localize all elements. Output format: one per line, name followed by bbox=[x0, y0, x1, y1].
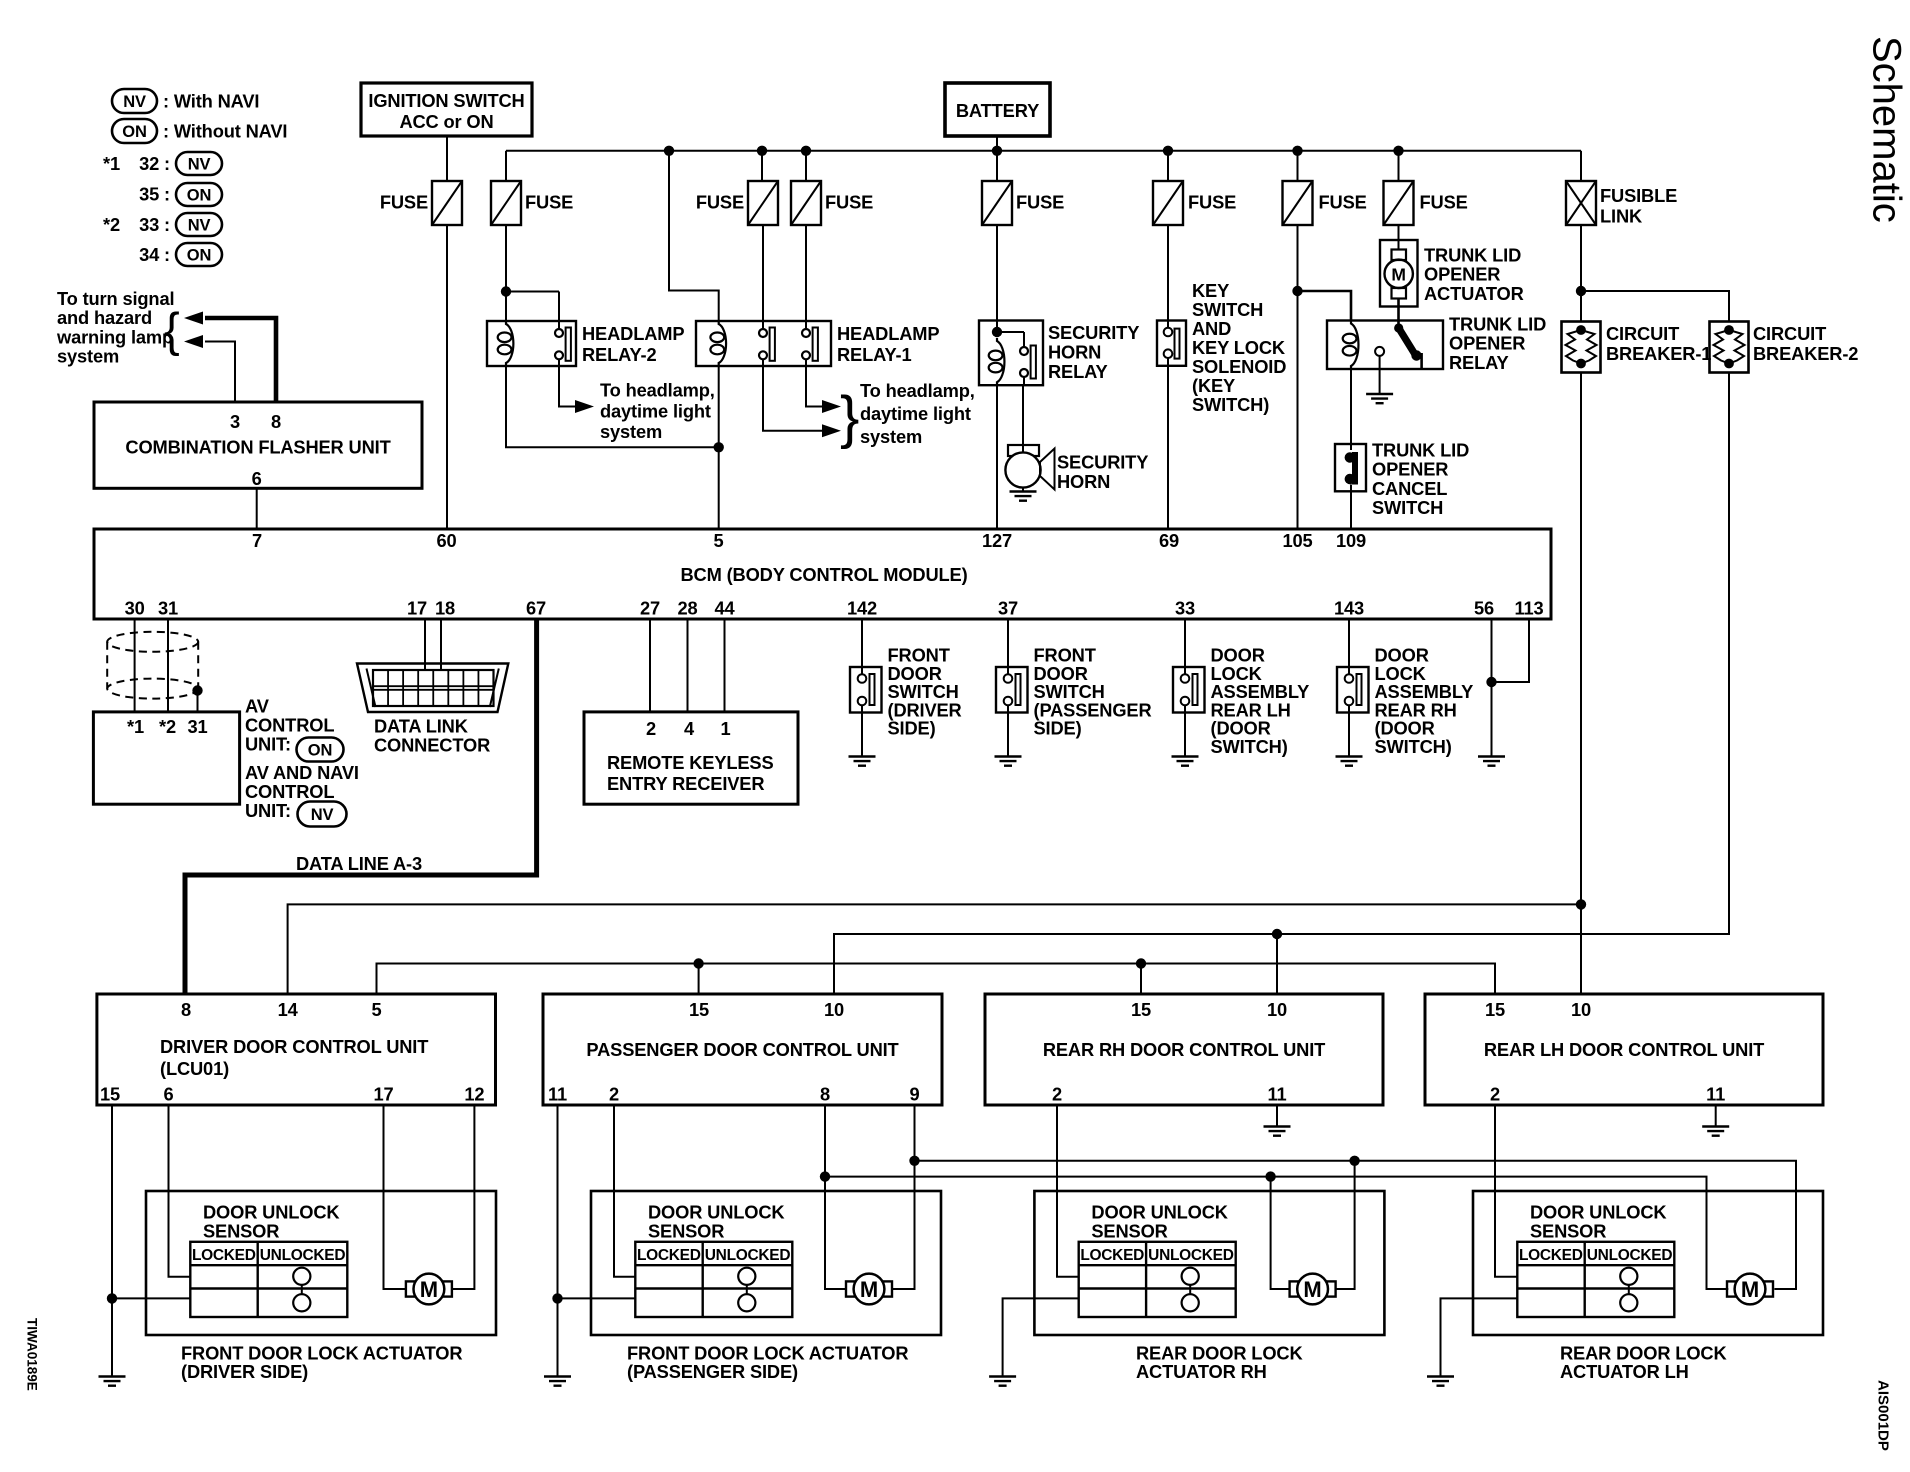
doc code AIS001DP (rotated) bbox=[1875, 1380, 1892, 1451]
wire: fuse F3 to relay-1 contact a bbox=[762, 225, 764, 330]
svg-text:DATA LINK: DATA LINK bbox=[374, 716, 469, 737]
box: rear RH door lock actuator bbox=[1034, 1191, 1384, 1335]
legend NV oval: With NAVI bbox=[112, 89, 259, 113]
box: REAR RH DOOR CONTROL UNIT bbox=[985, 994, 1383, 1105]
node: shield drain junction bbox=[192, 685, 202, 695]
svg-text:M: M bbox=[1303, 1277, 1321, 1302]
box: front passenger door lock actuator bbox=[591, 1191, 941, 1335]
switch: passenger door switch bbox=[996, 667, 1028, 713]
fuse F7 bbox=[1283, 181, 1367, 225]
wire: driver pin 12 to motor bbox=[452, 1105, 475, 1289]
svg-text:127: 127 bbox=[982, 530, 1012, 551]
wire: BCM pin 27 to receiver pin 2 bbox=[649, 619, 651, 712]
svg-text:FUSE: FUSE bbox=[1016, 192, 1064, 213]
shield cylinder (dashed) bbox=[107, 632, 198, 699]
wire: passenger pin 9 rail to rear motors (right tabs) bbox=[915, 1105, 1797, 1289]
svg-text:8: 8 bbox=[820, 1084, 830, 1105]
wire: CB-2 riser and rail to passenger pin 10 bbox=[834, 373, 1729, 995]
svg-text:*2: *2 bbox=[103, 214, 120, 235]
wire: key switch to BCM pin 69 bbox=[1167, 358, 1169, 529]
node: rail 1176 / passenger pin 8 bbox=[820, 1171, 830, 1181]
svg-text:OPENER: OPENER bbox=[1424, 264, 1500, 285]
svg-text:44: 44 bbox=[714, 598, 735, 619]
svg-text:Schematic: Schematic bbox=[1865, 36, 1909, 223]
wire: passenger pin 15 drop bbox=[698, 964, 700, 995]
box: front driver door lock actuator bbox=[146, 1191, 496, 1335]
svg-text:AND: AND bbox=[1192, 318, 1231, 339]
wire: BCM pin 56 to ground bbox=[1491, 619, 1493, 757]
svg-text:143: 143 bbox=[1334, 598, 1364, 619]
box: rear LH door lock actuator bbox=[1473, 1191, 1823, 1335]
ground: rear RH unit bbox=[1264, 1127, 1291, 1136]
node: rail 904 / CB-1 riser junction bbox=[1576, 899, 1586, 909]
node: bus junction x806 bbox=[801, 146, 811, 156]
doc code TIWA0189E (rotated) bbox=[25, 1318, 40, 1391]
svg-text:COMBINATION FLASHER UNIT: COMBINATION FLASHER UNIT bbox=[125, 437, 390, 458]
circuit breaker-2 bbox=[1710, 322, 1749, 373]
wire: passenger door switch to ground bbox=[1007, 705, 1009, 757]
svg-text:REAR RH DOOR CONTROL UNIT: REAR RH DOOR CONTROL UNIT bbox=[1043, 1039, 1325, 1060]
wire: rear RH pin 15 drop bbox=[1140, 964, 1142, 995]
svg-text:CIRCUIT: CIRCUIT bbox=[1753, 323, 1826, 344]
wire: rear RH sensor common to ground bbox=[1003, 1298, 1079, 1376]
fusible link bbox=[1566, 181, 1677, 227]
label: rear RH actuator name bbox=[1136, 1343, 1303, 1383]
switch: rear LH door switch bbox=[1173, 667, 1205, 713]
svg-text:DRIVER DOOR CONTROL UNIT: DRIVER DOOR CONTROL UNIT bbox=[160, 1036, 428, 1057]
node: passenger pin 11 junction bbox=[552, 1293, 562, 1303]
svg-text:DOOR UNLOCK: DOOR UNLOCK bbox=[1091, 1202, 1228, 1223]
svg-text:109: 109 bbox=[1336, 530, 1366, 551]
svg-text:OPENER: OPENER bbox=[1372, 459, 1448, 480]
svg-text:10: 10 bbox=[1571, 999, 1591, 1020]
svg-text:DOOR UNLOCK: DOOR UNLOCK bbox=[648, 1202, 785, 1223]
svg-text:warning lamp: warning lamp bbox=[56, 326, 173, 347]
svg-text:CIRCUIT: CIRCUIT bbox=[1606, 323, 1679, 344]
relay: SECURITY HORN RELAY bbox=[979, 321, 1043, 386]
wire: rear RH motor left riser bbox=[1271, 1177, 1290, 1289]
relay: HEADLAMP RELAY-1 bbox=[696, 321, 831, 366]
svg-text:HEADLAMP: HEADLAMP bbox=[837, 323, 939, 344]
wire: cancel switch to BCM pin 109 bbox=[1350, 485, 1352, 530]
brace and label: To headlamp daytime light system (relay-1) bbox=[840, 380, 975, 450]
svg-text:*1: *1 bbox=[103, 153, 120, 174]
svg-text:SENSOR: SENSOR bbox=[203, 1221, 279, 1242]
wire: CB-1 riser to rear LH pin 10 bbox=[1580, 373, 1582, 995]
svg-text:NV: NV bbox=[188, 217, 211, 235]
wire: trunk actuator to trunk relay switch bbox=[1397, 299, 1400, 329]
svg-text:SENSOR: SENSOR bbox=[648, 1221, 724, 1242]
switch: KEY SWITCH AND KEY LOCK SOLENOID bbox=[1157, 321, 1186, 366]
svg-text:system: system bbox=[860, 426, 922, 447]
svg-text:7: 7 bbox=[252, 530, 262, 551]
svg-text:ON: ON bbox=[187, 187, 211, 205]
svg-text:12: 12 bbox=[464, 1084, 484, 1105]
node: bus junction x1297.5 bbox=[1292, 146, 1302, 156]
label: driver door switch bbox=[888, 645, 962, 739]
svg-text:8: 8 bbox=[181, 999, 191, 1020]
svg-text:DOOR UNLOCK: DOOR UNLOCK bbox=[1530, 1202, 1667, 1223]
circuit breaker-1 bbox=[1562, 322, 1601, 373]
node: rail 963 / rear RH pin 15 junction bbox=[1136, 958, 1146, 968]
svg-text:SENSOR: SENSOR bbox=[1091, 1221, 1167, 1242]
node: pin 56/113 junction bbox=[1486, 677, 1496, 687]
wire: rear LH pin 11 to ground bbox=[1715, 1105, 1717, 1127]
svg-text:18: 18 bbox=[435, 598, 455, 619]
svg-text:6: 6 bbox=[163, 1084, 173, 1105]
svg-text:UNIT:: UNIT: bbox=[245, 800, 291, 821]
wire: bus to fuse F6 bbox=[1167, 151, 1169, 181]
fuse F6 bbox=[1153, 181, 1236, 225]
svg-text:NV: NV bbox=[311, 806, 334, 824]
svg-text:CANCEL: CANCEL bbox=[1372, 478, 1447, 499]
svg-text:UNLOCKED: UNLOCKED bbox=[1148, 1247, 1234, 1264]
wire: relay-1 contact a to arrow lower bbox=[763, 359, 841, 437]
wire: BCM pin 142 to driver door switch bbox=[861, 619, 863, 675]
svg-text:CONNECTOR: CONNECTOR bbox=[374, 735, 490, 756]
svg-text:*2: *2 bbox=[159, 716, 176, 737]
motor: TRUNK LID OPENER ACTUATOR bbox=[1380, 240, 1418, 307]
node: bus junction x1168 bbox=[1163, 146, 1173, 156]
svg-text:ON: ON bbox=[122, 123, 146, 141]
svg-text:: Without NAVI: : Without NAVI bbox=[163, 121, 287, 142]
box: DRIVER DOOR CONTROL UNIT (LCU01) bbox=[97, 994, 496, 1105]
label: front driver actuator name bbox=[181, 1343, 462, 1383]
box: COMBINATION FLASHER UNIT bbox=[94, 402, 422, 489]
legend *2 33 : NV bbox=[103, 213, 222, 236]
ground: driver door switch bbox=[849, 757, 876, 766]
svg-text:ACTUATOR LH: ACTUATOR LH bbox=[1560, 1361, 1689, 1382]
svg-text:To turn signal: To turn signal bbox=[57, 288, 174, 309]
node: rail 934 / rear RH pin 10 junction bbox=[1272, 929, 1282, 939]
svg-text:SECURITY: SECURITY bbox=[1048, 322, 1139, 343]
ground: rear RH door switch bbox=[1336, 757, 1363, 766]
svg-text:SOLENOID: SOLENOID bbox=[1192, 356, 1286, 377]
fuse F4 bbox=[791, 181, 873, 225]
svg-text:RELAY: RELAY bbox=[1048, 361, 1108, 382]
svg-text:69: 69 bbox=[1159, 530, 1179, 551]
label: TRUNK LID OPENER CANCEL SWITCH bbox=[1372, 440, 1469, 519]
svg-text:OPENER: OPENER bbox=[1449, 333, 1525, 354]
label: To headlamp daytime light system (relay-2) bbox=[600, 380, 715, 443]
wire: passenger pin 2 to sensor bbox=[614, 1105, 636, 1277]
wire: flasher pin 6 to BCM pin 7 bbox=[256, 488, 258, 529]
svg-text:KEY: KEY bbox=[1192, 280, 1229, 301]
svg-text:SWITCH): SWITCH) bbox=[1211, 736, 1288, 757]
legend *1 32 : NV bbox=[103, 152, 222, 175]
svg-text:DATA LINE A-3: DATA LINE A-3 bbox=[296, 853, 422, 874]
switch: TRUNK LID OPENER CANCEL SWITCH bbox=[1335, 444, 1366, 491]
svg-text:10: 10 bbox=[824, 999, 844, 1020]
svg-text:6: 6 bbox=[252, 468, 262, 489]
svg-text:11: 11 bbox=[1706, 1084, 1725, 1105]
svg-text:31: 31 bbox=[187, 716, 207, 737]
wire: bus to fuse F2 bbox=[505, 151, 507, 181]
sensor table (front driver) bbox=[190, 1242, 347, 1317]
svg-text:142: 142 bbox=[847, 598, 877, 619]
wire: BCM pin 37 to passenger door switch bbox=[1007, 619, 1009, 675]
fuse F2 bbox=[491, 181, 573, 225]
svg-text:35 :: 35 : bbox=[139, 184, 170, 205]
svg-text:4: 4 bbox=[684, 718, 695, 739]
svg-text:TRUNK LID: TRUNK LID bbox=[1424, 245, 1521, 266]
svg-text:system: system bbox=[600, 421, 662, 442]
svg-text:LINK: LINK bbox=[1600, 206, 1643, 227]
wire: rear RH motor right riser bbox=[1336, 1161, 1355, 1289]
svg-text:DOOR UNLOCK: DOOR UNLOCK bbox=[203, 1202, 340, 1223]
node: rail 1160 / passenger pin 9 bbox=[909, 1156, 919, 1166]
svg-text:LOCKED: LOCKED bbox=[192, 1247, 256, 1264]
label: CIRCUIT BREAKER-2 bbox=[1753, 323, 1858, 364]
node: bus junction x1398.5 bbox=[1393, 146, 1403, 156]
BCM top pin labels bbox=[252, 530, 1366, 551]
svg-text:ENTRY RECEIVER: ENTRY RECEIVER bbox=[607, 773, 764, 794]
wire: fuse F1 to BCM pin 60 bbox=[446, 225, 448, 529]
wire: bus to fuse F8 bbox=[1398, 151, 1400, 181]
svg-text:LOCKED: LOCKED bbox=[1080, 1247, 1144, 1264]
wire: fuse F7 to BCM pin 105 bbox=[1297, 225, 1299, 529]
wire: bus to headlamp relay-1 coil bbox=[669, 151, 719, 321]
wire: power rail from driver pin 14 to circuit breaker-1 net bbox=[288, 904, 1581, 994]
svg-text:27: 27 bbox=[640, 598, 660, 619]
svg-text:17: 17 bbox=[407, 598, 427, 619]
motor (front passenger) bbox=[846, 1274, 892, 1305]
svg-text:*1: *1 bbox=[127, 716, 144, 737]
wire: driver door switch to ground bbox=[861, 705, 863, 757]
svg-text:2: 2 bbox=[1490, 1084, 1500, 1105]
label: rear RH door switch bbox=[1375, 645, 1474, 758]
wire: flasher pin 3 to hazard arrow bbox=[184, 335, 235, 402]
ground: rear RH actuator bbox=[989, 1377, 1016, 1386]
switch: driver door switch bbox=[850, 667, 882, 713]
node: driver pin 15 junction bbox=[107, 1293, 117, 1303]
svg-text:M: M bbox=[860, 1277, 878, 1302]
sensor table (rear LH) bbox=[1517, 1242, 1674, 1317]
svg-text:HORN: HORN bbox=[1057, 471, 1110, 492]
svg-text:11: 11 bbox=[548, 1084, 567, 1105]
svg-text:15: 15 bbox=[689, 999, 709, 1020]
svg-text:FUSE: FUSE bbox=[1188, 192, 1236, 213]
label: AV CONTROL UNIT: ON / AV AND NAVI CONTROL UNIT: NV bbox=[245, 696, 359, 827]
node: breaker feed junction bbox=[1576, 286, 1586, 296]
svg-text:15: 15 bbox=[1131, 999, 1151, 1020]
fuse F1 bbox=[380, 181, 462, 225]
label: DATA LINE A-3 bbox=[296, 853, 422, 874]
svg-text:AV: AV bbox=[245, 696, 270, 717]
svg-text:8: 8 bbox=[271, 411, 281, 432]
svg-text:67: 67 bbox=[526, 598, 546, 619]
svg-text:5: 5 bbox=[713, 530, 723, 551]
svg-text:}: } bbox=[840, 385, 859, 450]
wire: BCM pin 44 to receiver pin 1 bbox=[724, 619, 726, 712]
svg-text:60: 60 bbox=[436, 530, 456, 551]
svg-text:28: 28 bbox=[677, 598, 697, 619]
svg-text:15: 15 bbox=[1485, 999, 1505, 1020]
svg-text:REAR LH DOOR CONTROL UNIT: REAR LH DOOR CONTROL UNIT bbox=[1484, 1039, 1764, 1060]
svg-text:BREAKER-1: BREAKER-1 bbox=[1606, 343, 1711, 364]
wire: bus to fuse F5 bbox=[996, 151, 998, 181]
ground: rear LH actuator bbox=[1427, 1377, 1454, 1386]
svg-text:14: 14 bbox=[278, 999, 299, 1020]
svg-text:REMOTE KEYLESS: REMOTE KEYLESS bbox=[607, 752, 774, 773]
wire: flasher pin 8 to turn signal arrow (thick) bbox=[184, 312, 276, 403]
wire: BCM pin 143 to rear RH door switch bbox=[1348, 619, 1350, 675]
svg-text:LOCKED: LOCKED bbox=[637, 1247, 701, 1264]
svg-text:UNLOCKED: UNLOCKED bbox=[1587, 1247, 1673, 1264]
brace: flasher outputs bbox=[164, 303, 180, 356]
svg-text:To headlamp,: To headlamp, bbox=[600, 380, 715, 401]
legend 35 : ON bbox=[139, 183, 222, 206]
BCM (BODY CONTROL MODULE) box bbox=[94, 529, 1551, 619]
wire: DATA LINE A-3 (BCM pin 67 to driver unit pin 8, thick) bbox=[185, 619, 537, 994]
label: passenger door switch bbox=[1034, 645, 1152, 739]
svg-text:M: M bbox=[1741, 1277, 1759, 1302]
BCM bottom pin labels bbox=[125, 598, 1544, 619]
node: rail 963 / passenger pin 15 junction bbox=[693, 958, 703, 968]
wire: ignition switch to fuse F1 bbox=[446, 136, 448, 181]
legend 34 : ON bbox=[139, 243, 222, 266]
svg-text:31: 31 bbox=[158, 598, 178, 619]
svg-text:FUSE: FUSE bbox=[380, 192, 428, 213]
motor (front driver) bbox=[406, 1274, 452, 1305]
label: DOOR UNLOCK SENSOR (rear LH) bbox=[1530, 1202, 1667, 1242]
svg-text:system: system bbox=[57, 346, 119, 367]
svg-text:PASSENGER DOOR CONTROL UNIT: PASSENGER DOOR CONTROL UNIT bbox=[586, 1039, 898, 1060]
sensor table (front passenger) bbox=[635, 1242, 792, 1317]
svg-text:SIDE): SIDE) bbox=[888, 718, 936, 739]
box: REAR LH DOOR CONTROL UNIT bbox=[1425, 994, 1823, 1105]
label: rear LH door switch bbox=[1211, 645, 1310, 758]
svg-text:AIS001DP: AIS001DP bbox=[1875, 1380, 1892, 1451]
svg-text:SENSOR: SENSOR bbox=[1530, 1221, 1606, 1242]
svg-text:FUSIBLE: FUSIBLE bbox=[1600, 185, 1677, 206]
svg-text:2: 2 bbox=[1052, 1084, 1062, 1105]
svg-text:: With NAVI: : With NAVI bbox=[163, 91, 259, 112]
svg-text:TRUNK LID: TRUNK LID bbox=[1449, 314, 1546, 335]
label: DOOR UNLOCK SENSOR (front passenger) bbox=[648, 1202, 785, 1242]
relay: HEADLAMP RELAY-2 bbox=[487, 321, 576, 366]
svg-text:34 :: 34 : bbox=[139, 244, 170, 265]
svg-text:HEADLAMP: HEADLAMP bbox=[582, 323, 684, 344]
title Schematic (rotated) bbox=[1865, 36, 1909, 223]
svg-text:M: M bbox=[420, 1277, 438, 1302]
wire: battery to bus bbox=[996, 136, 998, 151]
svg-text:1: 1 bbox=[720, 718, 730, 739]
svg-text:SWITCH: SWITCH bbox=[1192, 299, 1263, 320]
svg-text:32 :: 32 : bbox=[139, 153, 170, 174]
svg-text:SWITCH: SWITCH bbox=[1372, 497, 1443, 518]
wire: fuse F2 to headlamp relay-2 bbox=[506, 225, 559, 330]
svg-text:ACTUATOR: ACTUATOR bbox=[1424, 283, 1524, 304]
wire: junction to trunk relay coil bbox=[1298, 291, 1352, 321]
wire: relay-1 contact b to arrow upper bbox=[806, 359, 841, 413]
node A: BCM pin 5 net junction bbox=[714, 442, 724, 452]
wire: rear RH pin 11 to ground bbox=[1276, 1105, 1278, 1127]
wire: rear RH door switch to ground bbox=[1348, 705, 1350, 757]
label: HEADLAMP RELAY-2 bbox=[582, 323, 684, 365]
svg-text:CONTROL: CONTROL bbox=[245, 715, 334, 736]
wire: passenger pin 8 to its motor bbox=[825, 1177, 846, 1289]
wire: rear LH sensor common to ground bbox=[1441, 1298, 1518, 1376]
svg-text:(DRIVER SIDE): (DRIVER SIDE) bbox=[181, 1361, 308, 1382]
svg-text:(KEY: (KEY bbox=[1192, 375, 1235, 396]
box: AV CONTROL UNIT bbox=[93, 712, 239, 804]
motor (rear RH) bbox=[1290, 1274, 1336, 1305]
wire: fuse F5 to security horn relay bbox=[996, 225, 998, 332]
sensor table (rear RH) bbox=[1079, 1242, 1236, 1317]
wire: fuse F4 to relay-1 contact b bbox=[805, 225, 807, 330]
label: CIRCUIT BREAKER-1 bbox=[1606, 323, 1711, 364]
wire: BCM pin 18 to data link connector bbox=[440, 619, 442, 670]
legend ON oval: Without NAVI bbox=[112, 119, 287, 143]
node: rail 1176 / rear RH motor riser bbox=[1265, 1171, 1275, 1181]
ground: BCM pin 56 bbox=[1478, 757, 1505, 766]
svg-text:RELAY-2: RELAY-2 bbox=[582, 344, 656, 365]
svg-text:ACC or ON: ACC or ON bbox=[399, 111, 493, 132]
svg-text:3: 3 bbox=[230, 411, 240, 432]
switch: rear RH door switch bbox=[1337, 667, 1369, 713]
svg-text:FUSE: FUSE bbox=[1319, 192, 1367, 213]
svg-text:daytime light: daytime light bbox=[600, 400, 711, 421]
fuse F5 bbox=[982, 181, 1064, 225]
ignition switch box: IGNITION SWITCH ACC or ON bbox=[361, 83, 532, 136]
svg-text:UNLOCKED: UNLOCKED bbox=[705, 1247, 791, 1264]
wire: passenger pin 8 rail to rear motors (left tabs) bbox=[825, 1105, 1728, 1289]
svg-text:56: 56 bbox=[1474, 598, 1494, 619]
label: SECURITY HORN bbox=[1057, 452, 1148, 493]
wire: bus to fuse F4 bbox=[805, 151, 807, 181]
svg-text:daytime light: daytime light bbox=[860, 403, 971, 424]
wire: driver pin 17 to motor bbox=[384, 1105, 406, 1289]
label: TRUNK LID OPENER RELAY bbox=[1449, 314, 1546, 373]
node: bus junction x669 bbox=[664, 146, 674, 156]
wire: bus to fuse F7 bbox=[1297, 151, 1299, 181]
box: REMOTE KEYLESS ENTRY RECEIVER bbox=[584, 712, 798, 804]
svg-text:RELAY: RELAY bbox=[1449, 352, 1509, 373]
svg-text:SIDE): SIDE) bbox=[1034, 718, 1082, 739]
svg-text:ON: ON bbox=[308, 742, 332, 760]
svg-text:FUSE: FUSE bbox=[1420, 192, 1468, 213]
svg-text:LOCKED: LOCKED bbox=[1519, 1247, 1583, 1264]
ground: passenger actuator bbox=[544, 1377, 571, 1386]
fuse F8 bbox=[1384, 181, 1468, 225]
wire: relay-2 coil to node A (BCM pin 5 net) bbox=[506, 366, 716, 447]
label: SECURITY HORN RELAY bbox=[1048, 322, 1139, 382]
motor (rear LH) bbox=[1727, 1274, 1773, 1305]
wire: passenger pin 11 to sensor and ground bbox=[558, 1105, 637, 1377]
svg-text:SWITCH): SWITCH) bbox=[1375, 736, 1452, 757]
wire: BCM pin 113 jog to pin 56 net bbox=[1492, 619, 1530, 682]
wire: relay-1 coil to node A bbox=[718, 366, 720, 447]
node: rail 1160 / rear RH motor riser bbox=[1349, 1156, 1359, 1166]
wire: passenger pin 9 to its motor bbox=[892, 1161, 915, 1289]
svg-text:2: 2 bbox=[609, 1084, 619, 1105]
svg-text:TIWA0189E: TIWA0189E bbox=[25, 1318, 40, 1391]
svg-text:5: 5 bbox=[371, 999, 381, 1020]
connector: DATA LINK CONNECTOR bbox=[357, 664, 508, 713]
wire: bus to fusible link bbox=[1580, 151, 1582, 181]
svg-text:33: 33 bbox=[1175, 598, 1195, 619]
relay: TRUNK LID OPENER RELAY bbox=[1327, 321, 1443, 370]
svg-text:HORN: HORN bbox=[1048, 342, 1101, 363]
ground: passenger door switch bbox=[995, 757, 1022, 766]
ground: security horn bbox=[1010, 492, 1037, 501]
svg-text:SWITCH): SWITCH) bbox=[1192, 394, 1269, 415]
wire: trunk relay coil to cancel switch bbox=[1350, 369, 1352, 450]
svg-text:RELAY-1: RELAY-1 bbox=[837, 344, 911, 365]
wire: BCM pin 28 to receiver pin 4 bbox=[687, 619, 689, 712]
node: bus junction battery x997 bbox=[992, 146, 1002, 156]
